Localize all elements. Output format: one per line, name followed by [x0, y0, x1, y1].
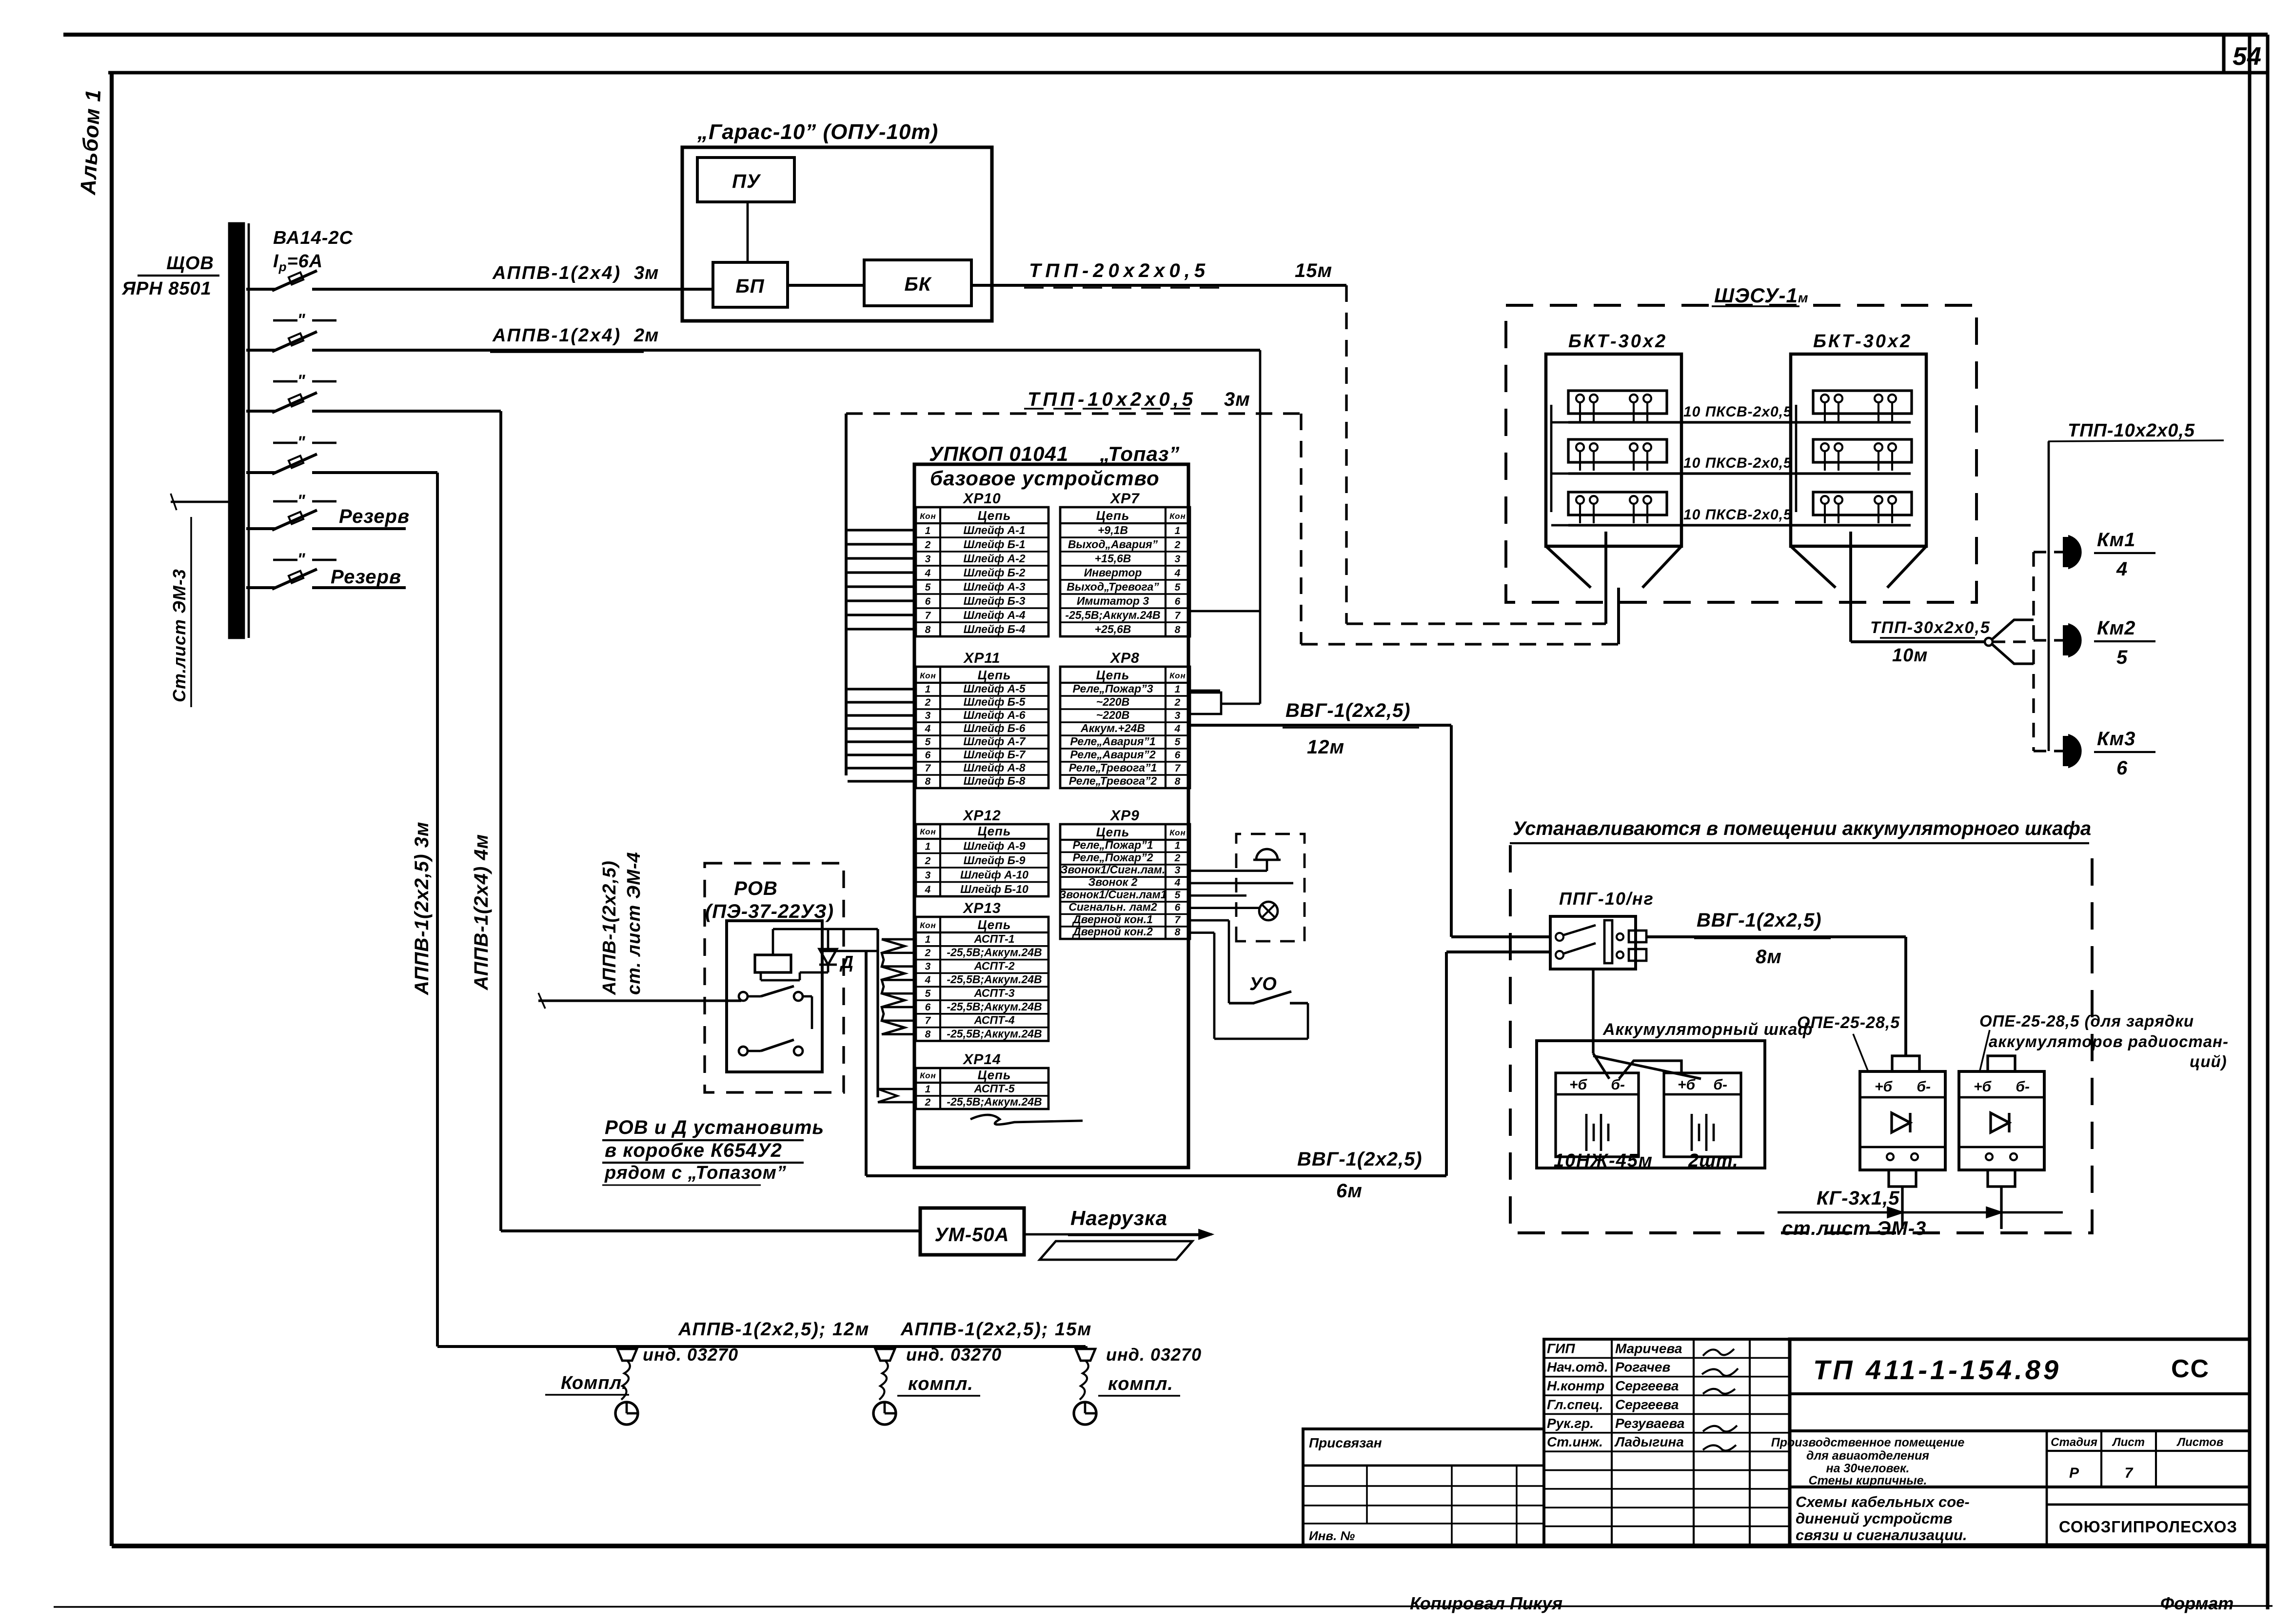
svg-text:10 ПКСВ-2х0,5: 10 ПКСВ-2х0,5: [1683, 455, 1792, 471]
svg-text:+б: +б: [1875, 1079, 1893, 1095]
svg-text:Шлейф Б-1: Шлейф Б-1: [964, 538, 1026, 551]
svg-text:Маричева: Маричева: [1615, 1341, 1682, 1356]
svg-text:„Топаз”: „Топаз”: [1099, 442, 1180, 465]
svg-text:АППВ-1(2х4): АППВ-1(2х4): [492, 325, 621, 346]
svg-text:ст. лист ЭМ-4: ст. лист ЭМ-4: [624, 852, 644, 995]
svg-text:~220В: ~220В: [1096, 709, 1129, 721]
svg-text:ЩОВ: ЩОВ: [166, 253, 214, 274]
svg-text:8м: 8м: [1756, 946, 1782, 968]
dashed box (bell+lamp): [1236, 834, 1305, 941]
svg-text:БК: БК: [905, 274, 932, 295]
svg-text:Резерв: Резерв: [339, 506, 410, 527]
svg-text:Нач.отд.: Нач.отд.: [1547, 1360, 1608, 1375]
svg-text:ГИП: ГИП: [1547, 1341, 1575, 1356]
svg-text:АСПТ-5: АСПТ-5: [973, 1082, 1015, 1095]
svg-text:4: 4: [925, 974, 931, 986]
svg-text:12м: 12м: [1307, 736, 1344, 758]
svg-text:5: 5: [1175, 890, 1181, 901]
rectifier ОПЕ-25-28,5 #1: [1860, 1071, 1945, 1170]
svg-text:2: 2: [925, 697, 931, 708]
wire ХР9 pin7 to УО: [1190, 919, 1229, 922]
svg-text:АСПТ-2: АСПТ-2: [973, 959, 1014, 972]
svg-text:Н.контр: Н.контр: [1547, 1378, 1604, 1393]
svg-text:Шлейф Б-2: Шлейф Б-2: [964, 566, 1026, 579]
svg-text:ХР12: ХР12: [962, 808, 1001, 824]
svg-text:Копировал Пикуя: Копировал Пикуя: [1410, 1593, 1562, 1613]
svg-text:-25,5В;Аккум.24В: -25,5В;Аккум.24В: [947, 1027, 1042, 1040]
wire АППВ-1(2х4) 2м: [312, 349, 1260, 352]
switch 2 on bus: [246, 349, 276, 352]
svg-text:ТПП-30х2х0,5: ТПП-30х2х0,5: [1870, 618, 1991, 637]
svg-text:2: 2: [925, 855, 931, 867]
svg-text:2: 2: [1174, 539, 1181, 551]
svg-text:Шлейф А-3: Шлейф А-3: [963, 580, 1025, 593]
svg-text:5: 5: [925, 988, 931, 999]
svg-text:б-: б-: [1611, 1077, 1625, 1093]
svg-text:АППВ-1(2х4) 4м: АППВ-1(2х4) 4м: [471, 834, 492, 990]
svg-text:Кон: Кон: [920, 512, 936, 521]
svg-text:ХР13: ХР13: [962, 900, 1001, 916]
speaker Км2/5: [2034, 639, 2066, 641]
frame left border: [110, 73, 114, 1546]
wire ТПП-20х2х0,5 15м: [971, 284, 1346, 287]
svg-text:ТП 411-1-154.89: ТП 411-1-154.89: [1813, 1354, 2061, 1385]
svg-text:Стены кирпичные.: Стены кирпичные.: [1809, 1474, 1927, 1487]
svg-text:АСПТ-3: АСПТ-3: [973, 987, 1014, 999]
svg-text:10м: 10м: [1892, 645, 1928, 666]
wires шлейф stubs ХР10/ХР11: [848, 529, 916, 531]
wire Резерв 1: [312, 527, 406, 530]
terminal strip 1: [1813, 391, 1912, 414]
svg-text:~220В: ~220В: [1096, 695, 1129, 708]
svg-text:Реле„Авария”2: Реле„Авария”2: [1070, 748, 1156, 761]
wire АППВ-1(2х4) 3м to БП: [312, 288, 713, 291]
svg-text:4: 4: [1174, 877, 1181, 889]
svg-text:+15,6В: +15,6В: [1095, 552, 1131, 565]
svg-text:ТПП-10х2х0,5: ТПП-10х2х0,5: [2068, 420, 2195, 441]
svg-text:связи и сигнализации.: связи и сигнализации.: [1796, 1526, 1967, 1544]
svg-text:ТПП-20х2х0,5: ТПП-20х2х0,5: [1029, 260, 1209, 281]
svg-text:рядом с „Топазом”: рядом с „Топазом”: [604, 1163, 787, 1183]
svg-text:ТПП-10х2х0,5: ТПП-10х2х0,5: [1028, 389, 1196, 410]
svg-text:54: 54: [2233, 42, 2262, 71]
sheet number cell 54: [2222, 35, 2225, 73]
svg-text:3м: 3м: [634, 263, 659, 283]
svg-text:АППВ-1(2х2,5); 15м: АППВ-1(2х2,5); 15м: [900, 1319, 1092, 1340]
svg-text:УМ-50А: УМ-50А: [934, 1224, 1009, 1246]
svg-text:Шлейф Б-10: Шлейф Б-10: [960, 883, 1028, 895]
block УМ-50А: [920, 1208, 1024, 1255]
svg-text:Реле„Пожар”2: Реле„Пожар”2: [1072, 851, 1153, 864]
svg-text:Инв. №: Инв. №: [1309, 1528, 1355, 1543]
svg-text:Ст.инж.: Ст.инж.: [1547, 1434, 1603, 1449]
svg-text:Реле„Пожар”1: Реле„Пожар”1: [1072, 838, 1153, 851]
svg-text:-25,5В;Аккум.24В: -25,5В;Аккум.24В: [947, 1095, 1042, 1108]
svg-text:АСПТ-1: АСПТ-1: [973, 932, 1014, 945]
dashed riser to speakers: [2032, 552, 2035, 751]
speaker Км1/4: [2034, 551, 2066, 553]
svg-text:Аккумуляторный шкаф: Аккумуляторный шкаф: [1602, 1020, 1813, 1039]
svg-text:Шлейф А-5: Шлейф А-5: [963, 682, 1026, 695]
svg-text:БКТ-30х2: БКТ-30х2: [1813, 331, 1912, 352]
svg-text:7: 7: [1175, 763, 1181, 774]
relay coil РОВ: [755, 955, 791, 972]
frame bottom border: [112, 1544, 2268, 1548]
svg-text:8: 8: [1175, 776, 1181, 787]
svg-text:Кон: Кон: [1169, 671, 1186, 680]
svg-text:Цепь: Цепь: [978, 824, 1011, 838]
svg-text:Шлейф Б-4: Шлейф Б-4: [964, 623, 1026, 635]
svg-text:1: 1: [925, 934, 931, 945]
wire АСПТ hook bus: [876, 929, 879, 1097]
telephone 2 инд.03270: [875, 1349, 895, 1361]
wire 220В drop to ХР8: [1259, 350, 1262, 704]
block "Гарас-10" (ОПУ-10т): [682, 147, 992, 321]
block БП: [713, 262, 788, 307]
svg-text:4: 4: [925, 568, 931, 579]
wire Резерв 2: [312, 586, 406, 589]
svg-text:2: 2: [925, 1097, 931, 1108]
svg-text:Формат: Формат: [2160, 1593, 2234, 1613]
wire from bus to Ст.лист ЭМ-3: [171, 501, 229, 503]
svg-text:Цепь: Цепь: [978, 508, 1011, 523]
svg-text:7: 7: [2125, 1465, 2134, 1481]
svg-text:Листов: Листов: [2176, 1436, 2224, 1449]
svg-text:Кон: Кон: [1169, 828, 1186, 837]
relay box РОВ inner: [727, 921, 822, 1072]
svg-text:Аккум.+24В: Аккум.+24В: [1080, 722, 1145, 734]
ditto mark: [273, 380, 297, 383]
svg-text:+9,1В: +9,1В: [1098, 524, 1128, 536]
svg-text:4: 4: [1174, 723, 1181, 734]
svg-text:на 30человек.: на 30человек.: [1826, 1462, 1909, 1475]
svg-text:Кон: Кон: [920, 671, 936, 680]
wire ПУ-БП: [747, 202, 749, 262]
svg-text:ОПЕ-25-28,5 (для зарядки: ОПЕ-25-28,5 (для зарядки: [1979, 1012, 2194, 1030]
rectifier ОПЕ-25-28,5 #2: [1959, 1071, 2044, 1170]
svg-text:Кон: Кон: [920, 827, 936, 836]
telephone 3 инд.03270: [1076, 1349, 1095, 1361]
svg-text:компл.: компл.: [1108, 1374, 1173, 1394]
СОЮЗГИПРОЛЕСХОЗ: [2047, 1504, 2250, 1506]
svg-text:+б: +б: [1569, 1077, 1588, 1093]
svg-text:15м: 15м: [1295, 260, 1332, 281]
svg-text:ций): ций): [2190, 1052, 2227, 1070]
svg-text:ЯРН 8501: ЯРН 8501: [121, 278, 212, 299]
speaker Км3/6: [2034, 750, 2066, 752]
svg-text:": ": [297, 492, 305, 510]
svg-text:Рогачев: Рогачев: [1615, 1360, 1670, 1375]
svg-text:2: 2: [925, 948, 931, 959]
svg-text:": ": [297, 433, 305, 452]
switch 3 on bus: [246, 410, 276, 413]
svg-text:3: 3: [925, 961, 931, 972]
svg-text:БКТ-30х2: БКТ-30х2: [1568, 331, 1667, 352]
svg-text:„Гарас-10” (ОПУ-10т): „Гарас-10” (ОПУ-10т): [697, 120, 938, 144]
svg-text:АСПТ-4: АСПТ-4: [973, 1014, 1014, 1027]
svg-text:7: 7: [1175, 610, 1181, 621]
sheet outer right border: [2266, 35, 2269, 1609]
svg-text:Инвертор: Инвертор: [1084, 566, 1142, 579]
svg-text:1: 1: [1175, 684, 1181, 695]
terminal strip 3: [1568, 492, 1667, 515]
svg-text:1: 1: [925, 525, 931, 536]
wire АППВ-1(2х2,5) 3м (to phones): [312, 471, 437, 474]
svg-text:Шлейф А-7: Шлейф А-7: [963, 735, 1026, 748]
svg-text:Шлейф Б-8: Шлейф Б-8: [964, 774, 1026, 787]
lamp symbol: [1259, 902, 1278, 920]
svg-text:Стадия: Стадия: [2051, 1436, 2097, 1449]
svg-text:ОПЕ-25-28,5: ОПЕ-25-28,5: [1797, 1013, 1900, 1032]
svg-text:Км2: Км2: [2097, 617, 2135, 639]
svg-text:-25,5В;Аккум.24В: -25,5В;Аккум.24В: [947, 946, 1042, 959]
svg-text:Цепь: Цепь: [978, 917, 1011, 932]
svg-text:Шлейф Б-6: Шлейф Б-6: [964, 722, 1026, 734]
frame right inner border: [2248, 35, 2251, 1546]
svg-text:компл.: компл.: [908, 1374, 973, 1394]
svg-text:2: 2: [1174, 697, 1181, 708]
svg-text:ВА14-2С: ВА14-2С: [273, 228, 353, 248]
switch 5 on bus: [246, 527, 276, 530]
contact 2 РОВ: [739, 1047, 748, 1055]
svg-text:ХР7: ХР7: [1109, 491, 1140, 507]
svg-text:Выход„Тревога”: Выход„Тревога”: [1067, 580, 1159, 593]
wire to УМ-50А: [501, 1229, 920, 1232]
svg-text:БП: БП: [735, 276, 764, 297]
wire АППВ-1(2х4) 4м (to УМ-50А): [312, 410, 501, 413]
contact 1 РОВ: [739, 992, 748, 1001]
svg-text:6: 6: [1175, 750, 1181, 761]
svg-text:1: 1: [1175, 525, 1181, 536]
svg-text:3: 3: [1175, 554, 1181, 565]
svg-text:4: 4: [1174, 568, 1181, 579]
svg-text:8: 8: [1175, 624, 1181, 635]
wire ППГ to battery: [1592, 969, 1594, 1053]
block ПУ: [697, 158, 794, 202]
svg-text:Реле„Тревога”2: Реле„Тревога”2: [1069, 774, 1157, 787]
svg-text:СОЮЗГИПРОЛЕСХОЗ: СОЮЗГИПРОЛЕСХОЗ: [2059, 1518, 2237, 1536]
svg-text:Лист: Лист: [2112, 1436, 2145, 1449]
svg-text:Шлейф А-9: Шлейф А-9: [963, 840, 1025, 852]
svg-text:ХР14: ХР14: [962, 1051, 1001, 1068]
wire КГ-3х1,5 ст.лист ЭМ-3: [1778, 1211, 2063, 1214]
wire ВВГ-1(2х2,5) 6м: [1446, 951, 1550, 953]
svg-text:7: 7: [925, 1015, 931, 1027]
svg-text:Км3: Км3: [2097, 728, 2135, 750]
svg-text:Км1: Км1: [2097, 529, 2135, 551]
svg-text:Сергеева: Сергеева: [1615, 1397, 1679, 1412]
svg-text:ХР8: ХР8: [1109, 650, 1140, 666]
svg-text:Производственное помещение: Производственное помещение: [1771, 1436, 1965, 1449]
svg-text:+25,6В: +25,6В: [1095, 623, 1131, 635]
svg-text:Шлейф А-2: Шлейф А-2: [963, 552, 1025, 565]
svg-text:7: 7: [925, 610, 931, 621]
signatures: [1703, 1349, 1734, 1356]
svg-text:Цепь: Цепь: [978, 668, 1011, 682]
svg-text:Цепь: Цепь: [978, 1068, 1011, 1082]
svg-text:6: 6: [2116, 757, 2128, 779]
svg-text:б-: б-: [1713, 1077, 1727, 1093]
svg-text:Сергеева: Сергеева: [1615, 1378, 1679, 1393]
svg-text:": ": [297, 372, 305, 390]
svg-text:Цепь: Цепь: [1096, 508, 1130, 523]
svg-text:5: 5: [1175, 582, 1181, 593]
title block: staff table: [1544, 1339, 1790, 1545]
svg-text:Шлейф Б-5: Шлейф Б-5: [964, 695, 1026, 708]
svg-text:4: 4: [2116, 558, 2128, 580]
svg-text:аккумуляторов радиостан-: аккумуляторов радиостан-: [1989, 1032, 2229, 1050]
svg-text:Шлейф А-1: Шлейф А-1: [963, 524, 1025, 536]
svg-text:Кон: Кон: [920, 921, 936, 930]
svg-text:ХР11: ХР11: [963, 650, 1000, 666]
svg-text:РОВ и Д установить: РОВ и Д установить: [605, 1117, 824, 1138]
svg-text:Рук.гр.: Рук.гр.: [1547, 1416, 1594, 1431]
title block: main: [1790, 1339, 2250, 1545]
dashed box accumulator room: [1510, 845, 2092, 1233]
svg-text:3: 3: [925, 554, 931, 565]
svg-text:6: 6: [1175, 596, 1181, 607]
wire АППВ-1(2х2,5) 12м/15м phone line: [437, 1345, 1086, 1348]
svg-text:ВВГ-1(2х2,5): ВВГ-1(2х2,5): [1285, 700, 1411, 721]
svg-text:3: 3: [925, 870, 931, 881]
svg-text:3: 3: [1175, 865, 1181, 876]
battery 2: [1664, 1073, 1741, 1157]
svg-text:КГ-3х1,5: КГ-3х1,5: [1817, 1188, 1900, 1209]
svg-text:Устанавливаются в помещении ак: Устанавливаются в помещении аккумуляторн…: [1513, 818, 2091, 839]
svg-text:2: 2: [1174, 852, 1181, 864]
wire УО loop to pin8: [1307, 1003, 1309, 1039]
ditto mark: [273, 442, 297, 444]
svg-text:УО: УО: [1249, 974, 1277, 994]
svg-text:4: 4: [925, 723, 931, 734]
svg-text:динений устройств: динений устройств: [1796, 1510, 1953, 1527]
svg-text:ППГ-10/нг: ППГ-10/нг: [1559, 889, 1654, 909]
svg-text:Компл.: Компл.: [561, 1373, 628, 1393]
connector stub at ХР8: [1190, 693, 1221, 714]
wire ТПП-20 dashed drop: [1345, 285, 1347, 624]
svg-text:": ": [297, 311, 305, 329]
svg-text:АППВ-1(2х2,5); 12м: АППВ-1(2х2,5); 12м: [678, 1319, 870, 1340]
diode Д: [819, 949, 837, 965]
svg-text:Резуваева: Резуваева: [1615, 1416, 1684, 1431]
svg-text:Кон: Кон: [920, 1071, 936, 1080]
svg-text:Р: Р: [2069, 1465, 2079, 1481]
svg-text:4: 4: [925, 884, 931, 895]
frame inner top border: [108, 71, 2268, 74]
svg-text:10 ПКСВ-2х0,5: 10 ПКСВ-2х0,5: [1683, 404, 1792, 420]
cable ТПП-30х2х0,5 10м from right БКТ: [1849, 532, 1852, 642]
svg-text:6: 6: [925, 750, 931, 761]
svg-text:2м: 2м: [633, 325, 659, 346]
svg-text:ХР9: ХР9: [1109, 808, 1140, 824]
svg-text:УПКОП 01041: УПКОП 01041: [929, 442, 1068, 465]
svg-text:СС: СС: [2171, 1355, 2210, 1383]
ditto mark: [273, 319, 297, 322]
svg-text:Шлейф Б-3: Шлейф Б-3: [964, 594, 1026, 607]
svg-text:Шлейф А-4: Шлейф А-4: [963, 609, 1025, 621]
svg-text:3: 3: [925, 710, 931, 721]
switch 6 on bus: [246, 586, 276, 589]
svg-text:инд. 03270: инд. 03270: [906, 1345, 1002, 1365]
svg-text:(ПЭ-37-22УЗ): (ПЭ-37-22УЗ): [705, 901, 834, 922]
svg-text:5: 5: [925, 582, 931, 593]
block РОВ (ПЭ-37-22УЗ) dashed: [705, 863, 844, 1092]
svg-text:ХР10: ХР10: [962, 491, 1001, 507]
svg-text:инд. 03270: инд. 03270: [643, 1345, 738, 1365]
svg-text:5: 5: [1175, 736, 1181, 748]
svg-text:ВВГ-1(2х2,5): ВВГ-1(2х2,5): [1297, 1149, 1423, 1170]
svg-text:базовое устройство: базовое устройство: [930, 467, 1160, 490]
wires ХР9 pins 3-6: [1190, 870, 1267, 872]
wire from ХР7 pin7: [1190, 610, 1260, 613]
svg-text:ст.лист ЭМ-3: ст.лист ЭМ-3: [1782, 1218, 1926, 1239]
svg-text:Звонок1/Сигн.лам1: Звонок1/Сигн.лам1: [1059, 888, 1166, 901]
svg-text:10 ПКСВ-2х0,5: 10 ПКСВ-2х0,5: [1683, 507, 1792, 523]
svg-text:5: 5: [925, 736, 931, 748]
svg-text:ШЭСУ-1м: ШЭСУ-1м: [1714, 284, 1809, 307]
terminal strip 2: [1568, 439, 1667, 462]
svg-text:8: 8: [925, 776, 931, 787]
svg-text:+б: +б: [1678, 1077, 1696, 1093]
svg-text:Дверной кон.2: Дверной кон.2: [1072, 925, 1153, 938]
svg-text:7: 7: [1175, 914, 1181, 926]
squiggle under ХР14: [970, 1115, 1083, 1125]
svg-text:6: 6: [925, 1002, 931, 1013]
стадия/лист columns: [2046, 1431, 2048, 1545]
svg-text:8: 8: [925, 624, 931, 635]
svg-text:+б: +б: [1974, 1079, 1992, 1095]
wire ВВГ-1(2х2,5) 12м: [1190, 724, 1451, 727]
svg-text:6: 6: [925, 596, 931, 607]
block БК: [864, 260, 971, 306]
svg-text:Кон: Кон: [1169, 512, 1186, 521]
svg-text:6: 6: [1175, 902, 1181, 913]
svg-text:1: 1: [925, 841, 931, 852]
svg-text:Ладыгина: Ладыгина: [1614, 1434, 1684, 1449]
wire into РОВ contact: [538, 999, 741, 1002]
svg-text:3: 3: [1175, 710, 1181, 721]
svg-text:8: 8: [925, 1029, 931, 1040]
wire БП-БК: [788, 284, 864, 287]
wire Нагрузка with arrow: [1024, 1233, 1212, 1236]
svg-text:Гл.спец.: Гл.спец.: [1547, 1397, 1603, 1412]
svg-text:АППВ-1(2х2,5) 3м: АППВ-1(2х2,5) 3м: [411, 821, 433, 995]
svg-text:2шт.: 2шт.: [1688, 1150, 1739, 1171]
svg-text:Шлейф Б-7: Шлейф Б-7: [964, 748, 1026, 761]
fan-out node: [1985, 638, 1993, 646]
svg-text:": ": [297, 550, 305, 569]
wire ВВГ-1(2х2,5) 8м: [1646, 935, 1906, 938]
svg-text:Реле„Тревога”1: Реле„Тревога”1: [1069, 761, 1157, 774]
svg-text:Цепь: Цепь: [1096, 825, 1130, 839]
switch 4 on bus: [246, 471, 276, 474]
svg-text:РОВ: РОВ: [734, 878, 778, 899]
svg-text:Выход„Авария”: Выход„Авария”: [1068, 538, 1158, 551]
svg-text:Звонок1/Сигн.лам.: Звонок1/Сигн.лам.: [1061, 863, 1166, 876]
svg-text:Схемы кабельных сое-: Схемы кабельных сое-: [1796, 1493, 1970, 1510]
load parallelogram: [1040, 1241, 1192, 1260]
svg-text:Резерв: Резерв: [331, 566, 401, 588]
svg-text:Шлейф А-8: Шлейф А-8: [963, 761, 1025, 774]
svg-text:Сигнальн. лам2: Сигнальн. лам2: [1068, 900, 1157, 913]
svg-text:-25,5В;Аккум.24В: -25,5В;Аккум.24В: [1065, 609, 1160, 621]
svg-text:Звонок 2: Звонок 2: [1088, 876, 1138, 889]
svg-text:в коробке К654У2: в коробке К654У2: [605, 1140, 782, 1161]
svg-text:-25,5В;Аккум.24В: -25,5В;Аккум.24В: [947, 973, 1042, 986]
wire шлейф loop bus: [845, 414, 848, 775]
svg-text:б-: б-: [2016, 1079, 2030, 1095]
svg-text:Нагрузка: Нагрузка: [1070, 1207, 1167, 1229]
